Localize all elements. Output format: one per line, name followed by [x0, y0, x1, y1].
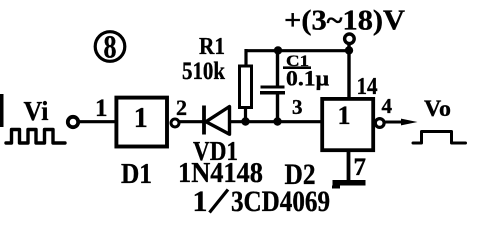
svg-text:D1: D1	[121, 159, 152, 190]
svg-text:7: 7	[354, 154, 367, 181]
svg-text:1: 1	[134, 103, 148, 134]
svg-text:2: 2	[176, 95, 187, 120]
svg-text:14: 14	[357, 74, 378, 100]
svg-text:510k: 510k	[182, 58, 225, 85]
svg-text:3CD4069: 3CD4069	[231, 185, 330, 218]
svg-text:8: 8	[104, 30, 117, 66]
svg-text:R1: R1	[199, 34, 225, 60]
svg-text:Vi: Vi	[24, 96, 49, 126]
svg-text:3: 3	[292, 95, 303, 119]
svg-text:Vo: Vo	[424, 96, 451, 121]
svg-text:4: 4	[382, 94, 393, 118]
svg-text:0.1μ: 0.1μ	[286, 66, 330, 91]
svg-text:1: 1	[338, 101, 351, 130]
svg-text:1: 1	[95, 95, 108, 122]
svg-text:+(3~18)V: +(3~18)V	[284, 6, 405, 37]
svg-text:1: 1	[193, 185, 208, 218]
